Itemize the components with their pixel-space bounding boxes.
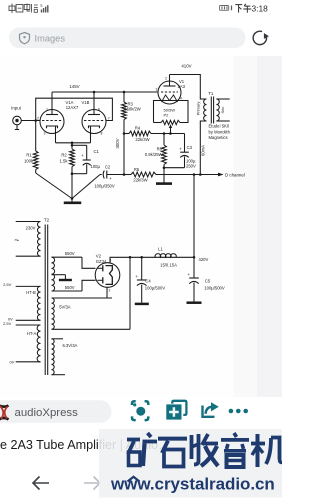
- svg-text:3: 3: [44, 131, 46, 135]
- wire cathode bus: [56, 142, 91, 144]
- svg-text:P2: P2: [164, 113, 170, 118]
- svg-text:1.5k: 1.5k: [60, 158, 69, 163]
- wire V2 cathode to B+: [110, 257, 194, 263]
- svg-text:Sec: Sec: [220, 107, 225, 114]
- svg-text:2: 2: [165, 76, 167, 80]
- node pot wiper bottom: [169, 132, 172, 135]
- svg-text:HT-A: HT-A: [27, 331, 37, 336]
- capacitor C5 100u/500V: [193, 257, 195, 278]
- wire HV bottom to V2 plate: [82, 280, 96, 291]
- capacitor C1 100u: [72, 144, 87, 146]
- T2 winding 6.3V/3A: [52, 338, 64, 340]
- svg-text:2A3: 2A3: [178, 84, 186, 89]
- svg-text:HT-B: HT-B: [26, 290, 36, 295]
- ground output stage: [156, 182, 172, 185]
- node R1/grid junction: [34, 119, 37, 122]
- svg-text:15/0.15A: 15/0.15A: [160, 263, 177, 268]
- svg-text:audioXpress: audioXpress: [15, 407, 79, 419]
- resistor R4 22k/3W: [123, 132, 126, 135]
- node B+ riser junction: [193, 173, 196, 176]
- svg-text:Magnetics: Magnetics: [209, 135, 228, 140]
- more dots icon: [229, 409, 234, 414]
- svg-text:R1: R1: [26, 153, 32, 158]
- svg-text:3: 3: [156, 88, 158, 92]
- wire R6 to ground: [163, 168, 165, 183]
- svg-text:100µ: 100µ: [91, 164, 101, 169]
- resistor R3 150k/2W: [123, 92, 125, 102]
- svg-text:145V: 145V: [69, 84, 79, 89]
- T2 winding 5V/3A: [52, 297, 113, 299]
- HV center tap ground: [52, 274, 66, 276]
- back arrow: [33, 477, 49, 490]
- watermark background block: [99, 429, 282, 498]
- choke L1 15H/0.15A: [155, 254, 176, 258]
- svg-text:Primary: Primary: [196, 102, 201, 116]
- svg-text:7: 7: [108, 116, 110, 120]
- resistor R2 1.5k: [71, 143, 73, 149]
- node 420V C5 junction: [193, 256, 196, 259]
- tube V1 2A3: [158, 75, 181, 105]
- svg-text:by Monolith: by Monolith: [209, 130, 231, 135]
- svg-text:420V: 420V: [199, 257, 209, 262]
- node V1B plate junction: [93, 91, 96, 94]
- svg-text:C3: C3: [187, 145, 193, 150]
- wire primary return 60mA: [200, 121, 206, 175]
- watermark circumflex accent: [128, 477, 140, 482]
- watermark char ji: [251, 434, 282, 467]
- wire secondary top lead: [216, 98, 229, 100]
- svg-text:C2: C2: [105, 165, 111, 170]
- svg-text:Etude! 5K0: Etude! 5K0: [209, 123, 230, 128]
- node primary return junction: [199, 173, 202, 176]
- svg-text:~: ~: [14, 235, 19, 245]
- svg-text:+: +: [135, 274, 138, 279]
- filament box / hum pot P2 50R: [154, 101, 189, 123]
- wire R2/C1 bottom: [72, 173, 87, 175]
- svg-text:2: 2: [109, 289, 111, 293]
- svg-text:300V: 300V: [115, 138, 120, 148]
- svg-text:+: +: [188, 272, 191, 277]
- search pill: [9, 28, 246, 49]
- T2 primary winding 230V: [16, 221, 41, 223]
- wire grid bus box: [36, 98, 113, 120]
- resistor R6 0.9k/25W: [163, 134, 165, 146]
- svg-text:+: +: [81, 153, 84, 158]
- svg-text:0.9k/25W: 0.9k/25W: [145, 152, 163, 157]
- reload icon: [253, 31, 266, 44]
- svg-text:150k/2W: 150k/2W: [124, 106, 141, 111]
- forward arrow: [84, 477, 100, 490]
- watermark char shi: [158, 437, 187, 467]
- svg-text:2.5V: 2.5V: [3, 282, 12, 287]
- T2 winding HT-A 2.5V: [16, 324, 41, 326]
- wire R1 slope to ground: [36, 173, 72, 199]
- wire 410V plate to primary: [170, 75, 207, 100]
- svg-text:5V/3A: 5V/3A: [59, 305, 71, 310]
- svg-text:100µ/500V: 100µ/500V: [145, 286, 166, 291]
- ground driver: [71, 199, 73, 202]
- capacitor C3 100u/250V: [184, 134, 186, 153]
- svg-text:R2: R2: [61, 152, 67, 157]
- svg-text:230V: 230V: [26, 225, 36, 230]
- wire 145V plate rail: [52, 91, 158, 93]
- image viewer gray side band: [234, 56, 258, 397]
- status bar carrier text (China Telecom): [9, 4, 38, 14]
- svg-text:R5: R5: [134, 167, 140, 172]
- svg-text:C5: C5: [205, 279, 211, 284]
- svg-text:22k/3W: 22k/3W: [133, 177, 147, 182]
- svg-text:8: 8: [101, 131, 103, 135]
- svg-text:6: 6: [98, 108, 100, 112]
- rectifier tube V2 GZ34: [95, 263, 120, 288]
- status signal bars icon: [40, 3, 48, 13]
- svg-text:+: +: [109, 176, 112, 181]
- svg-text:T2: T2: [44, 217, 50, 222]
- svg-text:+: +: [179, 147, 182, 152]
- resistor R1 100k: [35, 121, 37, 152]
- pot wiper arrow: [170, 127, 172, 134]
- wire 5V return riser to B+: [129, 257, 131, 329]
- svg-text:410V: 410V: [181, 63, 191, 68]
- schematic white sheet: [0, 56, 234, 397]
- svg-text:2: 2: [37, 116, 39, 120]
- svg-text:Images: Images: [35, 33, 66, 43]
- svg-text:3:18: 3:18: [252, 4, 269, 14]
- wire 300V node: [123, 120, 125, 175]
- save/collect icon: [172, 401, 186, 415]
- svg-text:V1B: V1B: [82, 100, 90, 105]
- arrow D channel out: [218, 173, 224, 177]
- svg-text:100µ/500V: 100µ/500V: [204, 286, 225, 291]
- T2 winding HT-B 2.5V: [16, 285, 41, 287]
- resistor R5 22k/3W on B+ line: [124, 174, 131, 176]
- audioXpress logo: [0, 405, 9, 420]
- svg-text:0V: 0V: [10, 360, 15, 365]
- node C4 junction: [140, 256, 143, 259]
- search shield icon: [20, 33, 30, 44]
- svg-text:L1: L1: [158, 247, 163, 252]
- tube V1A 12AX7 triode: [40, 92, 64, 143]
- input jack J1: [13, 116, 22, 125]
- watermark char shou: [192, 434, 219, 466]
- audioXpress chip: [0, 400, 112, 423]
- svg-text:2.5V: 2.5V: [3, 321, 12, 326]
- transformer T1 secondary: [216, 99, 219, 121]
- capacitor C4 100u/500V: [141, 257, 143, 280]
- svg-text:C1: C1: [94, 149, 100, 154]
- transformer T1 primary: [204, 99, 207, 121]
- wire C2 slope to ground: [72, 175, 100, 199]
- svg-text:6.3V/3A: 6.3V/3A: [62, 343, 77, 348]
- svg-text:4: 4: [180, 96, 182, 100]
- svg-text:T1: T1: [208, 91, 214, 96]
- svg-text:22k/3W: 22k/3W: [135, 137, 149, 142]
- watermark char yin: [221, 433, 249, 467]
- ground C5: [187, 301, 202, 304]
- svg-text:R6: R6: [157, 147, 163, 152]
- wire HV top to V2 plate: [82, 257, 96, 268]
- svg-text:250V: 250V: [186, 163, 196, 168]
- svg-text:R4: R4: [135, 126, 141, 131]
- node cathode/R6 top: [163, 132, 166, 135]
- watermark char kuang: [127, 433, 157, 466]
- svg-text:550V: 550V: [65, 285, 75, 290]
- transformer T2 core: [44, 225, 46, 376]
- svg-text:Input: Input: [11, 105, 22, 110]
- node R3 top junction: [123, 91, 126, 94]
- svg-text:D channel: D channel: [225, 172, 245, 177]
- wire 420V B+ to D channel: [156, 174, 218, 176]
- status battery icon: [220, 6, 229, 11]
- wire B+ riser 420V to amp: [193, 175, 195, 258]
- lens icon: [132, 401, 148, 420]
- svg-text:550V: 550V: [65, 251, 75, 256]
- T2 HV winding 550V-0-550V: [52, 256, 83, 258]
- svg-text:GZ34: GZ34: [96, 259, 107, 264]
- wire input to V1A grid: [21, 120, 40, 122]
- transformer T1 core: [210, 97, 212, 124]
- node 5V return riser: [129, 256, 132, 259]
- capacitor C2 100u/350V: [100, 174, 102, 176]
- tube V1B 12AX7 triode: [82, 92, 106, 143]
- wire R6/C3 bottom: [164, 167, 185, 169]
- svg-text:100k: 100k: [24, 159, 34, 164]
- share icon: [203, 406, 215, 417]
- status time 下午3:18: [235, 4, 251, 13]
- ground C4: [135, 303, 149, 306]
- svg-text:1: 1: [46, 108, 48, 112]
- wire V2 pin2 to 5V winding: [106, 287, 108, 298]
- svg-text:C4: C4: [145, 279, 151, 284]
- svg-text:12AX7: 12AX7: [66, 105, 79, 110]
- svg-text:100µ/350V: 100µ/350V: [94, 184, 115, 189]
- wire secondary bottom lead: [216, 120, 229, 122]
- svg-text:60mA: 60mA: [201, 145, 206, 156]
